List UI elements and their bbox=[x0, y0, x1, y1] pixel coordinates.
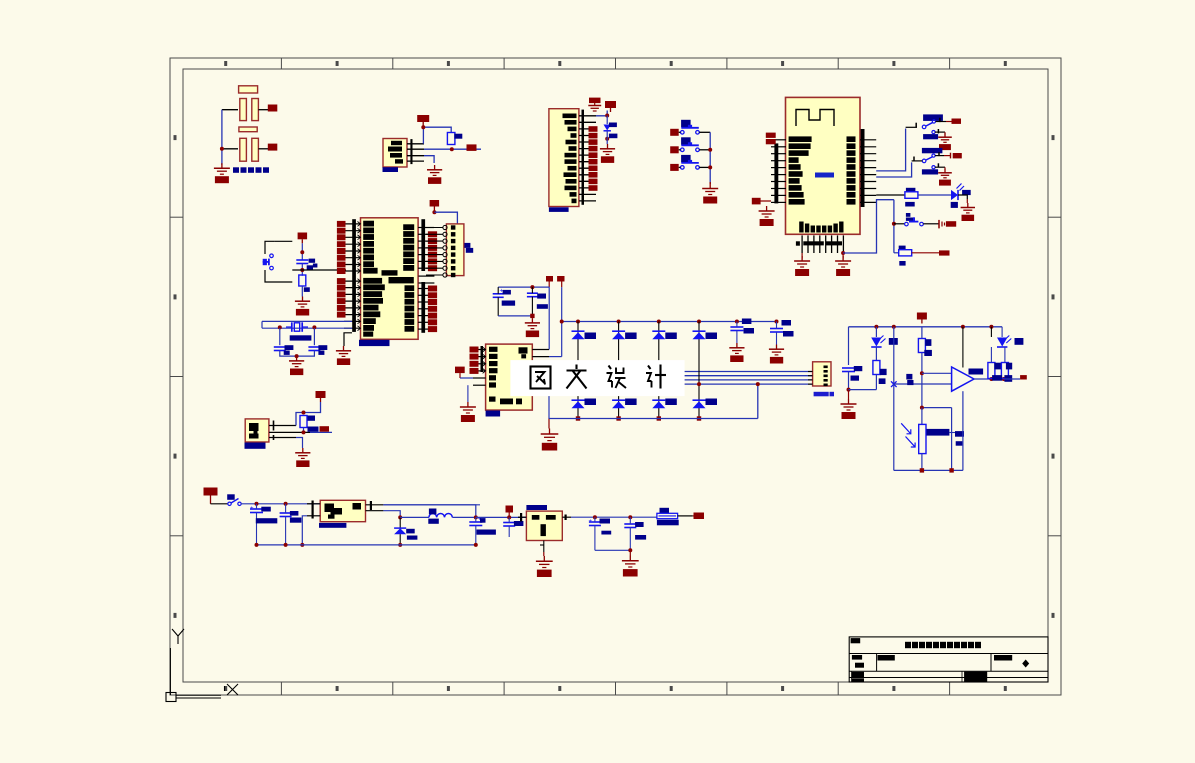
label C9 bbox=[782, 320, 792, 326]
wire U7 low out bbox=[383, 511, 400, 518]
label R5 bbox=[994, 363, 1001, 370]
wire Q btm link bbox=[595, 549, 630, 551]
wire column D1 bbox=[577, 322, 579, 419]
wire C5 down bbox=[301, 264, 303, 276]
wire S1 bbox=[679, 131, 681, 133]
wire column D4 bbox=[698, 322, 700, 419]
junction diode bbox=[398, 515, 402, 519]
switch S1 bbox=[681, 131, 685, 135]
switch SW6a bbox=[922, 159, 926, 163]
watermark band bbox=[510, 360, 684, 396]
module U4 side pins bbox=[771, 129, 876, 207]
IC Q1 body bbox=[245, 419, 269, 442]
junction J2 vcc bbox=[605, 114, 609, 118]
label S2 bbox=[681, 137, 691, 145]
power label J2 top bbox=[589, 98, 601, 104]
wire xtal gnd bbox=[280, 351, 315, 357]
wire out pad bbox=[1004, 378, 1020, 380]
wire U1 gnd bbox=[344, 333, 352, 346]
diode D9 bbox=[394, 528, 406, 534]
label D1a bbox=[585, 333, 597, 340]
junction rail D4 bbox=[697, 320, 701, 324]
touch pad C-pad2a bbox=[240, 138, 247, 161]
label D4a bbox=[706, 333, 718, 340]
wire LED1 drop bbox=[875, 327, 877, 337]
IC U3 designator bbox=[486, 411, 501, 417]
wire K bottom bbox=[498, 315, 532, 317]
label U6 bbox=[969, 369, 984, 375]
junction button bbox=[892, 222, 896, 226]
junction R bottom bbox=[450, 147, 454, 151]
wire switch bus bbox=[709, 132, 711, 184]
label SW7 bbox=[227, 494, 235, 500]
wire column D2 bbox=[618, 322, 620, 419]
ground U5 bbox=[434, 165, 436, 170]
resistor R1 bbox=[299, 275, 306, 286]
wire XC2 bbox=[313, 328, 315, 345]
ground U3 left bbox=[460, 385, 476, 422]
power VCC U5 bbox=[422, 122, 424, 126]
LED D8 bbox=[997, 338, 1007, 347]
wire R12 right bbox=[912, 252, 939, 254]
LED D7 bbox=[871, 338, 881, 347]
module U4 center mark bbox=[815, 173, 834, 178]
wire K top bbox=[498, 286, 549, 288]
wire inductor line bbox=[400, 516, 429, 518]
title block diamond bbox=[1022, 660, 1029, 668]
power VCC Q1 bbox=[320, 398, 322, 402]
IC U3 body bbox=[486, 344, 533, 410]
resistor R6 bbox=[1001, 363, 1008, 379]
junction P2 bbox=[892, 325, 896, 329]
title text bbox=[905, 642, 911, 648]
wire R12 left bbox=[894, 252, 899, 254]
junction xtal gnd bbox=[295, 354, 299, 358]
net pad S3 bbox=[670, 164, 679, 171]
wire button right bbox=[923, 223, 939, 225]
wire LED row bbox=[876, 194, 905, 196]
wire U4 to SW5 bbox=[876, 129, 905, 171]
net pad S4 bbox=[946, 221, 956, 227]
LED D6 bbox=[951, 190, 958, 200]
wire R4 down bbox=[921, 353, 923, 408]
wire Q out bbox=[678, 515, 693, 517]
label S1 bbox=[681, 120, 691, 128]
label C15 bbox=[600, 519, 611, 524]
net pads U4 left bbox=[766, 133, 776, 138]
diode D2a bbox=[612, 330, 625, 332]
net pad S2 bbox=[670, 146, 679, 153]
label S4 bbox=[906, 213, 911, 217]
wire U5 pin3 gnd bbox=[424, 156, 434, 163]
wire J1 vcc bbox=[434, 212, 457, 224]
connector J3 body bbox=[813, 362, 831, 386]
IC U1 right net labels bbox=[428, 231, 437, 237]
label R6 bbox=[1006, 363, 1012, 370]
label R12 bbox=[899, 246, 906, 250]
label R3 bbox=[880, 369, 887, 375]
IC U8 pin names bbox=[532, 515, 540, 520]
title block frame bbox=[849, 637, 1048, 682]
diode D2b bbox=[612, 399, 625, 401]
IC U1 right pin names bbox=[403, 224, 414, 230]
label C16 bbox=[635, 522, 644, 527]
junction out2 bbox=[1002, 377, 1006, 381]
ground J2 top bbox=[588, 105, 601, 107]
label R11 value bbox=[905, 202, 915, 207]
wire Q2 bbox=[241, 503, 320, 505]
wire U5 pin1 to R bbox=[423, 127, 451, 144]
wire photocell loop bbox=[922, 407, 952, 409]
capacitor C2 bbox=[274, 346, 286, 348]
power VCC K1 bbox=[546, 276, 553, 287]
ground C8 bbox=[736, 343, 738, 348]
net pad S1 bbox=[670, 129, 679, 136]
label opamp in bbox=[906, 374, 912, 380]
wire diode gnd bbox=[399, 534, 401, 545]
label D9 bbox=[406, 529, 415, 534]
junction Q1 top bbox=[302, 411, 306, 415]
module U4 body bbox=[786, 97, 861, 234]
label C11 bbox=[261, 507, 271, 512]
module U4 bottom pins bbox=[796, 235, 844, 253]
ground D5 bbox=[607, 144, 609, 149]
touch pad plate TP2 bbox=[239, 127, 257, 132]
label FB1 value bbox=[657, 520, 679, 526]
switch SW6b bbox=[932, 166, 935, 169]
capacitor C9 bbox=[770, 328, 783, 330]
connector J2 pins bbox=[579, 110, 596, 205]
ground U4 bottom1 bbox=[794, 253, 810, 276]
connector J2 net labels bbox=[589, 126, 598, 132]
IC U3 left net labels bbox=[470, 347, 479, 353]
power VCC P bbox=[921, 320, 923, 324]
junction photo top bbox=[920, 406, 924, 410]
svg-text:+: + bbox=[589, 519, 593, 525]
wire Q bottom bus bbox=[257, 544, 476, 546]
junction K1 bbox=[530, 285, 534, 289]
svg-text:+: + bbox=[250, 506, 254, 512]
net pad right 1 bbox=[268, 105, 278, 112]
diode D3a bbox=[652, 330, 665, 332]
ground D6 bbox=[961, 199, 975, 221]
label D2a bbox=[625, 333, 637, 340]
IC U1 right pins bbox=[418, 219, 434, 333]
junction diode btm bbox=[398, 543, 402, 547]
label R2 bbox=[308, 416, 316, 421]
wire Q1 gnd bbox=[296, 438, 303, 449]
switch SW5a bbox=[922, 125, 926, 129]
wire U7 out bbox=[383, 504, 480, 506]
connector J3 pin names bbox=[824, 366, 828, 369]
switch S2 bbox=[681, 148, 685, 152]
IC U7 pins bbox=[307, 503, 320, 505]
label R11 bbox=[906, 188, 916, 193]
net pad U5 bbox=[467, 144, 477, 151]
ground touch bbox=[221, 163, 223, 168]
wire SW6 stub bbox=[912, 160, 923, 162]
label C2 bbox=[285, 345, 294, 350]
IC U8 pins bbox=[518, 516, 526, 518]
net pad U4 left2 bbox=[752, 198, 761, 205]
power VCC J1 bbox=[433, 207, 435, 211]
wire touch pads left bbox=[258, 109, 268, 111]
IC U7 body bbox=[320, 500, 365, 521]
sheet border frame bbox=[170, 58, 1061, 695]
junction U5 vcc bbox=[421, 125, 425, 129]
junction C15 bbox=[593, 515, 597, 519]
label L1 bbox=[429, 509, 437, 515]
label D8 bbox=[1015, 338, 1024, 345]
diode D4a bbox=[693, 330, 706, 332]
IC U1 left net labels bbox=[337, 221, 346, 227]
junction Q cap2 bbox=[284, 502, 288, 506]
junction D5 bbox=[605, 137, 609, 141]
touch pad C-pad1b bbox=[252, 99, 259, 121]
IC U3 left pins bbox=[473, 346, 486, 385]
net pad R12 bbox=[939, 250, 950, 255]
junction reset top bbox=[300, 250, 304, 254]
label D6 value bbox=[951, 202, 958, 208]
label SW5b bbox=[923, 134, 938, 139]
connector J1 pins bbox=[443, 225, 447, 229]
junction P bottom2 bbox=[949, 468, 953, 472]
wire XC1 bbox=[279, 328, 281, 345]
label RG1 bbox=[927, 429, 950, 436]
capacitor C6 bbox=[493, 293, 504, 295]
touch pad C-pad1a bbox=[240, 99, 247, 121]
wire U3 phase lines bbox=[532, 371, 813, 373]
wire matrix top rail bbox=[562, 321, 777, 323]
ground switches bbox=[702, 182, 718, 204]
border zone ticks bbox=[280, 58, 282, 69]
resistor R2 bbox=[300, 416, 307, 428]
wire photo cell down bbox=[921, 408, 923, 425]
wire XTAL pair bbox=[262, 320, 352, 322]
wire Q3 bbox=[476, 516, 527, 518]
wire S2 bbox=[679, 149, 681, 151]
wire Q1 vcc bbox=[296, 413, 304, 426]
capacitor C12 bbox=[280, 512, 292, 514]
ground SW6 bbox=[938, 167, 952, 185]
wire Q1 out bbox=[310, 431, 332, 433]
wire U7 left return bbox=[302, 516, 307, 545]
junction Q1 mid bbox=[302, 430, 306, 434]
wire photo drop bbox=[893, 327, 895, 384]
wire R11 LED bbox=[918, 194, 951, 196]
wire diode drop bbox=[399, 517, 401, 528]
wire reset out bbox=[292, 269, 346, 271]
ground Q1 bbox=[302, 448, 304, 453]
junction rail D2 bbox=[617, 320, 621, 324]
label D4b bbox=[706, 399, 718, 406]
label C7 bbox=[537, 294, 546, 299]
wire reset frame bbox=[265, 241, 274, 254]
capacitor C11 bbox=[250, 508, 263, 510]
IC U3 pin names bbox=[489, 347, 498, 352]
wire Q in bbox=[211, 503, 229, 505]
wire opamp vcc bbox=[962, 327, 964, 368]
title block label1 bbox=[851, 638, 861, 643]
label FB1 bbox=[660, 508, 670, 514]
connector J2 body bbox=[549, 109, 579, 207]
switch S3 bbox=[681, 166, 685, 170]
power VBAT pad bbox=[204, 488, 218, 504]
junction N2 bbox=[775, 320, 779, 324]
net pad right 2 bbox=[268, 144, 278, 151]
origin marker bbox=[172, 629, 184, 636]
button S4 bbox=[905, 222, 909, 226]
ground U4 left bbox=[766, 206, 768, 211]
junction P1 bbox=[874, 325, 878, 329]
IC U5 designator bbox=[383, 167, 399, 172]
junction P bottom1 bbox=[920, 468, 924, 472]
label Y1 bbox=[290, 335, 312, 340]
wire D5 gnd bbox=[606, 131, 608, 144]
wire R3 bottom bbox=[875, 375, 877, 390]
diode D5 bbox=[604, 116, 611, 131]
label touch switch bbox=[233, 167, 239, 173]
label C5 bbox=[309, 259, 316, 263]
label D3a bbox=[665, 333, 677, 340]
capacitor C13 bbox=[469, 521, 482, 523]
ground C9 bbox=[776, 345, 778, 350]
photoresistor RG1 bbox=[919, 424, 926, 453]
ground U3 bbox=[541, 419, 559, 451]
junction C16 bbox=[628, 515, 632, 519]
wire K1 drop bbox=[548, 287, 550, 349]
wire J2 pin1 bbox=[596, 111, 607, 116]
label R4 bbox=[925, 339, 931, 346]
IC U1 body bbox=[361, 218, 419, 339]
module U4 bottom pin names bbox=[799, 222, 803, 233]
IC U8 body bbox=[526, 511, 562, 540]
button RST bbox=[270, 254, 274, 258]
wire P left drop bbox=[848, 327, 850, 365]
ground U1 bbox=[343, 346, 345, 351]
capacitor C15 bbox=[589, 521, 601, 523]
touch pad C-pad2b bbox=[252, 138, 259, 161]
ground Q right bbox=[622, 550, 639, 576]
wire SW6 up bbox=[935, 155, 944, 157]
junction rail D3 bbox=[657, 320, 661, 324]
IC U7 designator bbox=[319, 523, 346, 528]
wire opamp out bbox=[974, 378, 1002, 380]
wire P top rail bbox=[849, 326, 1003, 328]
power VCC U3 left bbox=[455, 367, 473, 378]
touch pad plate TP1 bbox=[239, 86, 258, 93]
diode D3b bbox=[652, 399, 665, 401]
junction opamp in bbox=[920, 371, 924, 375]
junction bottom D3 bbox=[657, 416, 661, 420]
no-connect X bbox=[891, 381, 897, 387]
wire LED2 drop bbox=[990, 327, 992, 337]
capacitor C16 bbox=[624, 523, 636, 525]
junction phase4 bbox=[697, 382, 701, 386]
junction P4 bbox=[989, 325, 993, 329]
net pad Q1 bbox=[320, 426, 330, 432]
switch SW5b bbox=[932, 131, 935, 134]
IC U7 pin names bbox=[325, 504, 335, 513]
IC Q1 designator bbox=[245, 443, 266, 449]
label C6 bbox=[503, 290, 511, 295]
junction N1 bbox=[735, 320, 739, 324]
wire LED gnd bbox=[958, 195, 967, 199]
crystal Y1 bbox=[286, 322, 308, 332]
label D7 bbox=[889, 338, 898, 345]
junction bus2 bbox=[284, 543, 288, 547]
ground reset bbox=[302, 297, 304, 302]
junction bottom D1 bbox=[576, 416, 580, 420]
label D5 bbox=[609, 123, 617, 128]
junction Q btm bbox=[628, 548, 632, 552]
junction K gnd bbox=[530, 314, 534, 318]
wire S3 bbox=[679, 166, 681, 168]
ground U8 bbox=[536, 552, 553, 577]
wire column D3 bbox=[658, 322, 660, 419]
junction Q mid bbox=[507, 515, 511, 519]
IC U5 body bbox=[383, 139, 407, 168]
wire button left bbox=[894, 223, 905, 225]
wire matrix bottom rail bbox=[549, 418, 758, 420]
label D5 value bbox=[609, 134, 618, 139]
resistor R11 bbox=[905, 192, 918, 199]
junction C13 bbox=[474, 515, 478, 519]
junction bus3 bbox=[474, 543, 478, 547]
label SW6 bbox=[922, 148, 943, 153]
IC U8 designator bbox=[526, 505, 547, 510]
power VCC J2 bbox=[610, 108, 612, 112]
label D2b bbox=[625, 399, 637, 406]
wire D7 R3 bbox=[875, 347, 877, 361]
junction matrix right bbox=[756, 382, 760, 386]
wire U8 gnd bbox=[543, 541, 545, 553]
title block row labels bbox=[852, 672, 864, 678]
wire RG1 label link bbox=[949, 432, 955, 434]
capacitor C14 bbox=[503, 522, 515, 524]
label R1 bbox=[304, 287, 310, 292]
IC Q1 pins bbox=[269, 425, 296, 427]
junction U4 bottom bbox=[841, 251, 845, 255]
wire U5 pin2 bus bbox=[424, 148, 481, 150]
IC Q1 pin names bbox=[249, 423, 259, 431]
module U4 antenna bbox=[796, 110, 834, 127]
junction Q cap1 bbox=[255, 502, 259, 506]
wire touch pads vertical bbox=[221, 110, 223, 165]
wire opamp inn bbox=[894, 383, 952, 385]
power VCC mid bbox=[506, 506, 514, 518]
wire SW5 stub bbox=[906, 126, 917, 128]
net pad SW5 bbox=[952, 119, 962, 124]
wire U3 gnd down bbox=[548, 392, 550, 419]
op-amp U6 bbox=[952, 367, 974, 391]
label C12 bbox=[290, 511, 299, 516]
junction bus1 bbox=[255, 543, 259, 547]
title block cell labels bbox=[852, 655, 862, 660]
junction touch node bbox=[220, 147, 224, 151]
power VCC K2 bbox=[557, 276, 564, 287]
wire button riser bbox=[893, 200, 895, 253]
wire R2 bottom bbox=[303, 428, 305, 433]
diode D1b bbox=[572, 399, 585, 401]
wire U7 top out bbox=[383, 505, 475, 518]
label J1 bbox=[464, 243, 470, 248]
wire K2 drop bbox=[561, 287, 563, 357]
label C14 bbox=[514, 521, 524, 526]
junction rail start bbox=[560, 320, 564, 324]
IC U5 pin names bbox=[391, 141, 402, 145]
junction Y1 left bbox=[278, 325, 282, 329]
